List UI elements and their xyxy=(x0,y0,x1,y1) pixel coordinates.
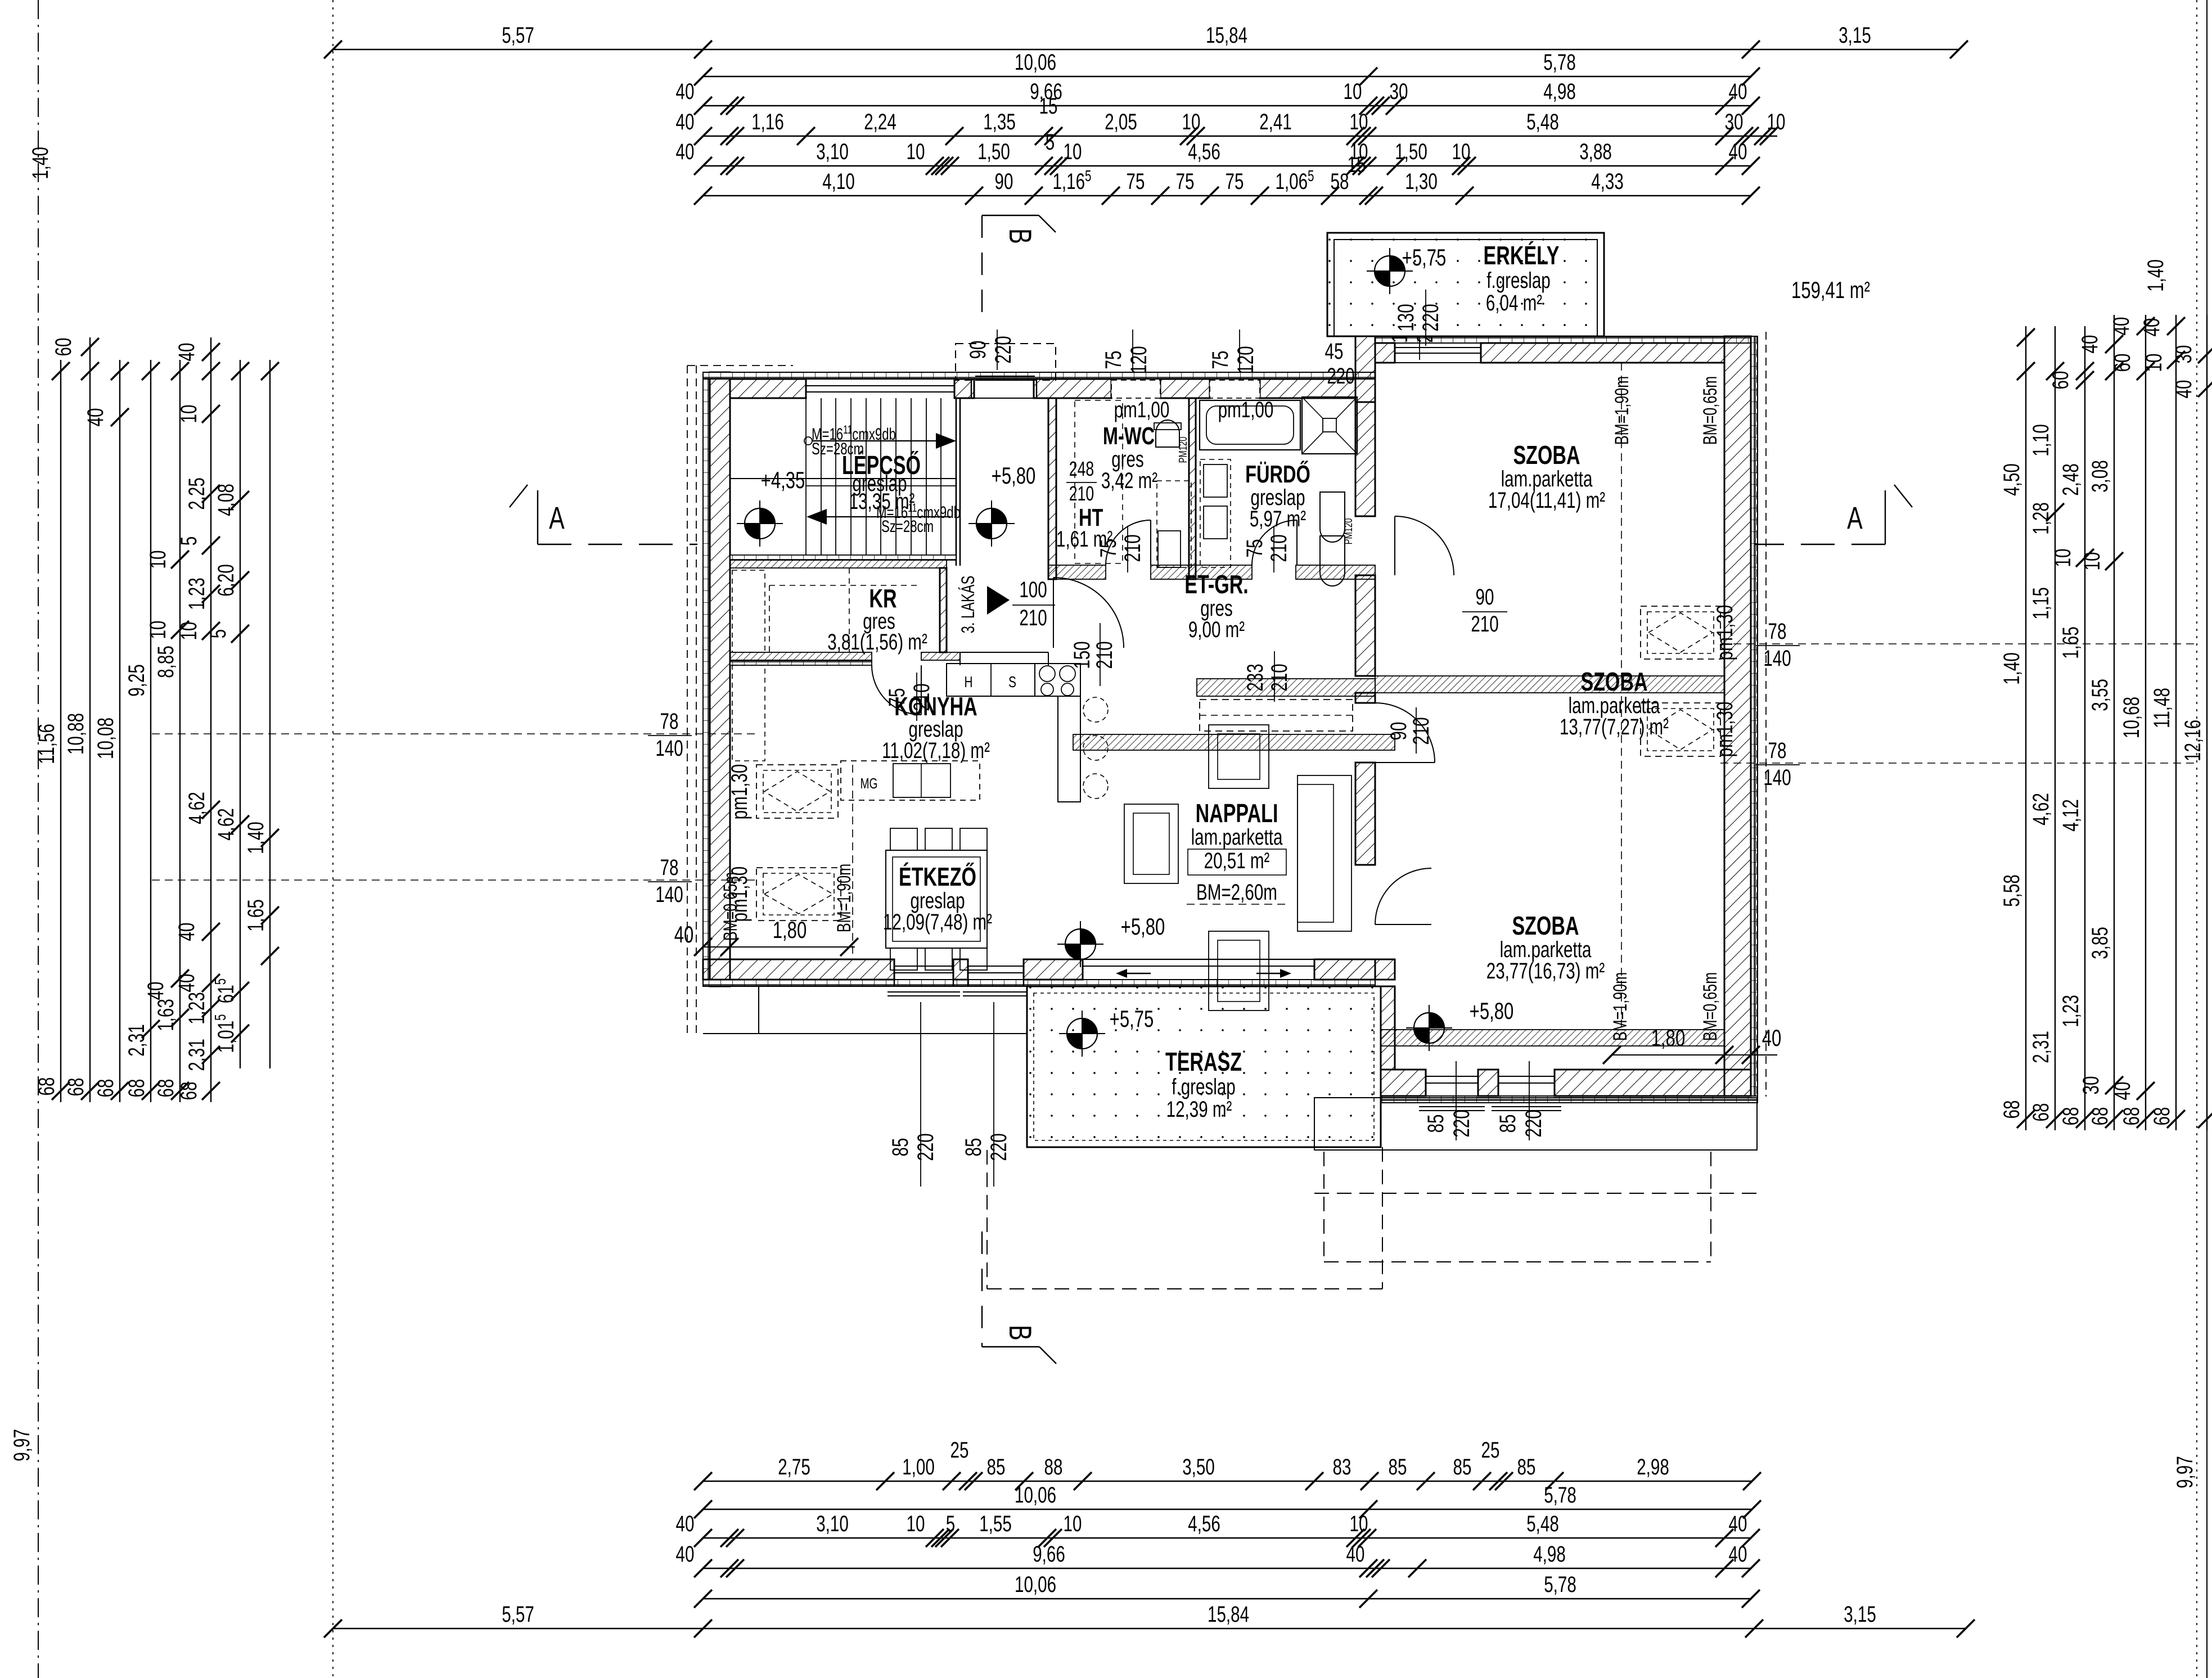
svg-text:1,28: 1,28 xyxy=(2029,502,2053,535)
svg-text:85: 85 xyxy=(961,1138,986,1157)
eaves outline left xyxy=(687,366,688,1035)
dimension chain bottom row 4 xyxy=(676,1542,1760,1577)
svg-text:1,40: 1,40 xyxy=(244,822,268,854)
left dimension column 1 xyxy=(34,360,70,1102)
outer wall bottom (left block) xyxy=(703,980,1375,986)
svg-text:40: 40 xyxy=(676,110,695,134)
svg-text:220: 220 xyxy=(1418,304,1443,331)
svg-text:MG: MG xyxy=(861,775,878,792)
dimension chain bottom row 6 xyxy=(324,1602,1975,1638)
svg-text:10,08: 10,08 xyxy=(93,718,118,759)
svg-text:9,25: 9,25 xyxy=(124,664,149,697)
svg-text:1,35: 1,35 xyxy=(983,110,1016,134)
svg-text:1,30: 1,30 xyxy=(1405,169,1438,194)
svg-text:1,50: 1,50 xyxy=(1395,139,1427,164)
svg-text:3,08: 3,08 xyxy=(2088,460,2112,493)
svg-text:25: 25 xyxy=(950,1438,969,1463)
svg-text:2,05: 2,05 xyxy=(1105,110,1137,134)
svg-text:10: 10 xyxy=(2051,549,2075,567)
svg-text:ÉTKEZŐ: ÉTKEZŐ xyxy=(899,862,976,891)
svg-text:85: 85 xyxy=(888,1138,913,1157)
sliding door arrows xyxy=(1119,973,1151,974)
right dimension column 3 xyxy=(2048,326,2094,1130)
svg-text:75: 75 xyxy=(1226,169,1244,194)
svg-text:68: 68 xyxy=(1999,1100,2024,1119)
balcony ERKELY xyxy=(1327,233,1604,336)
svg-text:Sz=28cm: Sz=28cm xyxy=(881,517,934,536)
svg-text:ERKÉLY: ERKÉLY xyxy=(1484,241,1560,270)
svg-text:3,42 m²: 3,42 m² xyxy=(1101,468,1158,493)
svg-text:68: 68 xyxy=(2088,1107,2112,1126)
right dimension column 7 xyxy=(2172,315,2212,1130)
svg-text:11,56: 11,56 xyxy=(34,724,59,764)
svg-text:+5,80: +5,80 xyxy=(1470,998,1514,1024)
svg-text:68: 68 xyxy=(2029,1103,2053,1122)
svg-text:5: 5 xyxy=(1046,130,1055,155)
dimension chain top row detail 2 xyxy=(676,130,1760,175)
svg-text:1,10: 1,10 xyxy=(2029,424,2053,457)
svg-text:68: 68 xyxy=(2058,1107,2083,1126)
svg-text:10: 10 xyxy=(907,1512,925,1536)
svg-text:B: B xyxy=(1002,228,1038,244)
svg-text:BM=0,65m: BM=0,65m xyxy=(1700,972,1721,1041)
svg-text:40: 40 xyxy=(676,1512,695,1536)
svg-text:83: 83 xyxy=(1333,1455,1351,1479)
svg-text:10: 10 xyxy=(907,139,925,164)
svg-text:68: 68 xyxy=(64,1078,88,1097)
svg-text:2,98: 2,98 xyxy=(1637,1455,1669,1479)
svg-text:SZOBA: SZOBA xyxy=(1512,911,1579,940)
svg-text:4,56: 4,56 xyxy=(1188,1512,1220,1536)
svg-text:10: 10 xyxy=(1064,1512,1082,1536)
svg-text:40: 40 xyxy=(1346,1542,1365,1567)
svg-text:3. LAKÁS: 3. LAKÁS xyxy=(958,576,978,634)
svg-text:2,31: 2,31 xyxy=(2029,1031,2053,1063)
svg-text:10: 10 xyxy=(146,621,170,639)
svg-text:+4,35: +4,35 xyxy=(761,467,805,493)
svg-text:210: 210 xyxy=(1069,482,1094,505)
svg-text:PM120: PM120 xyxy=(1342,518,1355,544)
svg-text:1,50: 1,50 xyxy=(977,139,1010,164)
svg-text:3,10: 3,10 xyxy=(816,139,849,164)
roof window pm1,30 left no.2 xyxy=(756,868,841,921)
svg-text:3,88: 3,88 xyxy=(1579,139,1612,164)
svg-text:1,15: 1,15 xyxy=(2029,587,2053,620)
svg-text:68: 68 xyxy=(124,1079,149,1098)
svg-text:10: 10 xyxy=(1452,139,1471,164)
wall closet top xyxy=(1197,679,1375,696)
svg-text:40: 40 xyxy=(1729,79,1747,104)
svg-text:4,50: 4,50 xyxy=(1999,463,2024,496)
svg-text:23,77(16,73) m²: 23,77(16,73) m² xyxy=(1486,959,1605,984)
left dimension column 3 xyxy=(83,360,129,1102)
eaves below left block xyxy=(758,986,759,1034)
section mark B top xyxy=(982,215,1039,216)
svg-text:40: 40 xyxy=(1729,1512,1747,1536)
outer wall bottom (right block) xyxy=(1375,1096,1758,1103)
svg-text:ET-GR.: ET-GR. xyxy=(1184,570,1248,599)
dimension chain bottom row 2 xyxy=(694,1483,1761,1518)
svg-text:30: 30 xyxy=(1725,110,1744,134)
svg-text:4,56: 4,56 xyxy=(1188,139,1220,164)
svg-text:4,98: 4,98 xyxy=(1543,79,1576,104)
terrace sliding door opening 350/220 xyxy=(1083,959,1314,960)
svg-text:pm1,00: pm1,00 xyxy=(1114,398,1170,422)
svg-text:5: 5 xyxy=(206,629,231,638)
svg-text:25: 25 xyxy=(1481,1438,1500,1463)
dim 1,80/40 left bottom xyxy=(703,946,855,948)
svg-text:8,85: 8,85 xyxy=(154,646,178,678)
svg-text:15: 15 xyxy=(1348,152,1366,177)
svg-text:210: 210 xyxy=(1471,612,1498,637)
room ETKEZO table xyxy=(886,850,987,948)
left dimension column 4 xyxy=(124,360,160,1102)
svg-text:159,41 m²: 159,41 m² xyxy=(1791,277,1870,303)
svg-text:85: 85 xyxy=(1517,1455,1536,1479)
svg-text:40: 40 xyxy=(174,974,199,993)
svg-text:40: 40 xyxy=(2110,1082,2135,1100)
window 85/220 no.1 bottom wall xyxy=(894,959,895,986)
section mark A right xyxy=(1885,490,1886,544)
kitchen counters xyxy=(947,664,1080,696)
step wall connecting blocks xyxy=(1355,336,1375,402)
right dimension column 4 xyxy=(2078,315,2123,1130)
svg-text:TERASZ: TERASZ xyxy=(1165,1047,1242,1076)
grid line 5,57 xyxy=(332,0,334,1678)
section mark A left xyxy=(537,490,538,544)
dimension chain top row detail 1 xyxy=(676,94,1786,145)
svg-text:210: 210 xyxy=(1019,606,1047,630)
svg-text:1,00: 1,00 xyxy=(902,1455,935,1479)
wall szoba1 bottom xyxy=(1375,676,1724,693)
svg-text:5,78: 5,78 xyxy=(1544,1483,1576,1508)
svg-text:2,41: 2,41 xyxy=(1259,110,1292,134)
svg-text:A: A xyxy=(549,500,565,536)
svg-text:3,50: 3,50 xyxy=(1182,1455,1215,1479)
svg-text:15,84: 15,84 xyxy=(1208,1602,1249,1627)
svg-text:40: 40 xyxy=(143,982,168,1000)
svg-text:11,48: 11,48 xyxy=(2150,688,2174,728)
svg-text:+5,75: +5,75 xyxy=(1110,1005,1154,1032)
svg-text:90: 90 xyxy=(995,169,1013,194)
svg-text:85: 85 xyxy=(1423,1115,1448,1133)
svg-text:4,08: 4,08 xyxy=(214,484,238,516)
right dimension column 6 xyxy=(2139,315,2185,1130)
svg-text:10,06: 10,06 xyxy=(1015,1483,1056,1508)
svg-text:210: 210 xyxy=(1267,534,1291,562)
svg-text:BM=1,90m: BM=1,90m xyxy=(834,864,855,932)
svg-text:6,20: 6,20 xyxy=(214,564,238,597)
level marker +4,35 xyxy=(745,508,775,539)
door opening szoba bottom xyxy=(1375,868,1431,924)
porch dashed outline at entrance xyxy=(956,344,1056,380)
svg-text:220: 220 xyxy=(1521,1109,1546,1137)
svg-text:11,02(7,18) m²: 11,02(7,18) m² xyxy=(882,738,990,763)
svg-text:5: 5 xyxy=(177,536,201,545)
wall bath right / szoba left upper xyxy=(1355,402,1375,516)
svg-text:12,39 m²: 12,39 m² xyxy=(1166,1097,1232,1122)
svg-text:5,78: 5,78 xyxy=(1544,1572,1576,1597)
svg-text:4,62: 4,62 xyxy=(214,808,238,841)
svg-text:A: A xyxy=(1847,500,1863,536)
svg-text:85: 85 xyxy=(987,1455,1006,1479)
corner wall nappali bottom right xyxy=(1314,959,1375,980)
svg-text:40: 40 xyxy=(676,1542,695,1567)
svg-text:140: 140 xyxy=(655,882,683,907)
svg-text:4,12: 4,12 xyxy=(2058,799,2083,832)
svg-text:58: 58 xyxy=(1331,169,1349,194)
svg-text:BM=1,90m: BM=1,90m xyxy=(1611,376,1633,445)
site boundary line left xyxy=(38,0,39,1678)
nappali armchair 1 xyxy=(1209,725,1269,788)
wall szoba middle bottom xyxy=(1375,1030,1724,1046)
svg-text:10: 10 xyxy=(1344,79,1362,104)
wall KR bottom with door 75/210 xyxy=(730,652,872,660)
eaves right block xyxy=(1756,336,1758,1097)
svg-text:lam.parketta: lam.parketta xyxy=(1191,825,1283,850)
svg-text:10: 10 xyxy=(1767,110,1786,134)
svg-text:5,57: 5,57 xyxy=(502,1602,534,1627)
svg-text:10: 10 xyxy=(177,622,201,640)
roof window pm1,30 right no.2 xyxy=(1641,703,1720,756)
window 85/220 no.3 bottom right xyxy=(1425,1070,1426,1096)
svg-text:1,40: 1,40 xyxy=(1999,652,2024,685)
svg-text:4,62: 4,62 xyxy=(2029,793,2053,826)
svg-text:1,23: 1,23 xyxy=(2058,995,2083,1027)
svg-text:100: 100 xyxy=(1019,578,1047,602)
entrance door opening B in top wall xyxy=(974,398,1034,399)
svg-text:5,48: 5,48 xyxy=(1526,1512,1559,1536)
site boundary line right dashed xyxy=(2196,0,2197,1678)
svg-text:1,40: 1,40 xyxy=(28,147,53,179)
svg-text:85: 85 xyxy=(1389,1455,1407,1479)
svg-text:1,16: 1,16 xyxy=(751,110,784,134)
svg-text:30: 30 xyxy=(2172,345,2196,364)
page edge line right xyxy=(2206,0,2208,1678)
svg-text:90: 90 xyxy=(966,341,990,359)
svg-text:5,97 m²: 5,97 m² xyxy=(1250,507,1307,531)
svg-text:f.greslap: f.greslap xyxy=(1172,1075,1235,1099)
svg-text:10,88: 10,88 xyxy=(64,713,88,755)
left dimension column 6 xyxy=(174,337,220,1102)
svg-text:1,65: 1,65 xyxy=(2058,626,2083,659)
svg-text:88: 88 xyxy=(1044,1455,1063,1479)
shower xyxy=(1302,397,1357,454)
svg-text:68: 68 xyxy=(93,1079,118,1098)
svg-text:140: 140 xyxy=(655,736,683,761)
dimension chain bottom row 5 xyxy=(694,1572,1760,1608)
svg-text:6,04 m²: 6,04 m² xyxy=(1486,291,1543,315)
svg-text:233: 233 xyxy=(1243,664,1268,691)
svg-text:90: 90 xyxy=(1476,585,1494,610)
left dimension column 5 xyxy=(143,360,189,1102)
svg-text:pm1,30: pm1,30 xyxy=(1713,605,1737,661)
svg-text:210: 210 xyxy=(1409,717,1434,745)
svg-text:2,24: 2,24 xyxy=(864,110,896,134)
svg-text:75: 75 xyxy=(1208,351,1233,369)
svg-text:78: 78 xyxy=(660,709,679,734)
svg-text:5,48: 5,48 xyxy=(1526,110,1559,134)
wall bath bottom row segments xyxy=(1048,565,1106,579)
right dimension column 5 xyxy=(2109,315,2155,1130)
svg-text:10: 10 xyxy=(1064,139,1082,164)
level marker +5,75 balcony xyxy=(1375,256,1405,286)
svg-text:2,25: 2,25 xyxy=(184,477,209,510)
svg-text:10,68: 10,68 xyxy=(2119,697,2144,738)
stair direction arrow up xyxy=(804,437,812,445)
M-WC basin xyxy=(1157,481,1191,567)
door arc szoba top-right 90/210 xyxy=(1395,516,1454,575)
svg-text:10: 10 xyxy=(1182,110,1201,134)
svg-text:10: 10 xyxy=(2080,552,2105,571)
svg-text:120: 120 xyxy=(1233,346,1258,373)
svg-text:15,84: 15,84 xyxy=(1206,23,1247,48)
dimension chain bottom row 1 xyxy=(694,1438,1761,1490)
svg-text:130: 130 xyxy=(1394,304,1418,331)
svg-text:210: 210 xyxy=(1267,664,1292,691)
svg-text:1,61 m²: 1,61 m² xyxy=(1056,527,1113,552)
left dimension column 8 xyxy=(244,360,279,1068)
stair direction arrow down xyxy=(822,516,950,517)
svg-text:9,00 m²: 9,00 m² xyxy=(1188,617,1245,642)
svg-text:PM120: PM120 xyxy=(1177,436,1190,463)
svg-text:68: 68 xyxy=(177,1082,201,1100)
svg-text:220: 220 xyxy=(991,336,1016,363)
svg-text:f.greslap: f.greslap xyxy=(1486,268,1550,293)
svg-text:40: 40 xyxy=(674,921,694,948)
room HT xyxy=(1075,400,1123,563)
svg-text:68: 68 xyxy=(34,1077,59,1096)
svg-text:3,15: 3,15 xyxy=(1839,23,1871,48)
svg-text:150: 150 xyxy=(1070,641,1094,669)
svg-text:10: 10 xyxy=(1350,1512,1368,1536)
svg-text:40: 40 xyxy=(174,343,199,362)
svg-text:12,09(7,48) m²: 12,09(7,48) m² xyxy=(883,910,992,935)
svg-text:pm1,00: pm1,00 xyxy=(1218,398,1274,422)
svg-text:40: 40 xyxy=(1729,1542,1747,1567)
svg-text:75: 75 xyxy=(1176,169,1195,194)
nappali sofa xyxy=(1298,775,1351,931)
svg-text:60: 60 xyxy=(2110,354,2135,372)
svg-text:68: 68 xyxy=(2119,1107,2144,1126)
dashed line below right block xyxy=(1314,1193,1757,1194)
eave slab below right block xyxy=(1314,1098,1757,1150)
svg-text:40: 40 xyxy=(174,923,199,941)
outer wall left xyxy=(703,372,710,986)
svg-text:40: 40 xyxy=(1762,1025,1782,1051)
kitchen counter right xyxy=(1058,696,1080,802)
wall KR right xyxy=(940,568,947,652)
dashed outline below terrace xyxy=(986,1150,988,1289)
svg-text:5,58: 5,58 xyxy=(1999,874,2024,907)
closet dashed xyxy=(1200,700,1353,731)
svg-text:5,57: 5,57 xyxy=(502,23,534,48)
svg-text:30: 30 xyxy=(2079,1076,2103,1095)
svg-text:B: B xyxy=(1002,1325,1038,1341)
svg-text:10: 10 xyxy=(146,551,170,569)
wall below stair xyxy=(730,555,956,560)
dimension chain bottom row 3 xyxy=(676,1512,1760,1547)
door arc bath 75/210 xyxy=(1252,520,1297,565)
stove xyxy=(1035,664,1080,696)
svg-text:60: 60 xyxy=(2048,371,2073,390)
outer wall right xyxy=(1751,336,1758,1096)
svg-text:10,06: 10,06 xyxy=(1015,1572,1056,1597)
svg-text:40: 40 xyxy=(2078,335,2102,354)
svg-text:1,80: 1,80 xyxy=(1651,1025,1685,1051)
section mark B bottom xyxy=(982,1346,1039,1347)
dim 1,80/40 szoba bottom xyxy=(1612,1054,1777,1055)
svg-text:78: 78 xyxy=(1768,738,1787,763)
svg-text:220: 220 xyxy=(1327,364,1354,389)
svg-text:78: 78 xyxy=(1768,619,1787,644)
svg-text:60: 60 xyxy=(51,338,76,357)
svg-text:3,81(1,56) m²: 3,81(1,56) m² xyxy=(827,630,927,655)
svg-text:40: 40 xyxy=(1729,139,1747,164)
svg-text:SZOBA: SZOBA xyxy=(1580,667,1647,696)
svg-text:M-WC: M-WC xyxy=(1103,422,1155,450)
svg-text:H: H xyxy=(965,674,973,691)
svg-text:17,04(11,41) m²: 17,04(11,41) m² xyxy=(1488,488,1606,513)
wall stair/corridor edge xyxy=(956,398,957,566)
roof window pm1,30 left no.1 xyxy=(756,765,838,818)
svg-text:248: 248 xyxy=(1069,457,1094,480)
svg-text:2,48: 2,48 xyxy=(2058,463,2083,496)
level marker +5,80 nappali xyxy=(1065,929,1096,959)
svg-text:10: 10 xyxy=(177,405,201,423)
svg-text:45: 45 xyxy=(1325,339,1344,364)
svg-text:+5,75: +5,75 xyxy=(1402,244,1447,270)
svg-text:1,65: 1,65 xyxy=(244,899,268,932)
svg-text:BM=0,65m: BM=0,65m xyxy=(1700,376,1721,445)
svg-text:4,10: 4,10 xyxy=(822,169,855,194)
stair LEPCSO treads xyxy=(730,398,956,555)
nappali armchair 2 xyxy=(1124,804,1178,883)
svg-text:68: 68 xyxy=(2150,1107,2174,1126)
svg-text:40: 40 xyxy=(676,79,695,104)
svg-text:5,78: 5,78 xyxy=(1543,50,1576,75)
svg-text:2,31: 2,31 xyxy=(124,1024,149,1057)
door arc M-WC 75/210 xyxy=(1106,520,1151,565)
window 85/220 no.2 bottom wall xyxy=(967,959,968,986)
svg-text:40: 40 xyxy=(676,139,695,164)
bath basins xyxy=(1200,459,1231,567)
svg-text:5: 5 xyxy=(946,1512,955,1536)
dimension chain top row detail 3 xyxy=(694,152,1760,205)
svg-text:140: 140 xyxy=(1763,765,1791,790)
svg-text:3,55: 3,55 xyxy=(2088,679,2112,711)
svg-text:40: 40 xyxy=(2139,318,2164,337)
svg-text:3,85: 3,85 xyxy=(2088,927,2112,959)
kitchen left counters dashed xyxy=(732,570,765,652)
left dimension column 2 xyxy=(51,337,99,1102)
svg-text:75: 75 xyxy=(1242,539,1267,558)
svg-text:+5,80: +5,80 xyxy=(992,462,1036,489)
right dimension column 1 xyxy=(1999,326,2035,1130)
roof window pm1,30 right no.1 xyxy=(1641,606,1720,659)
svg-text:9,97: 9,97 xyxy=(10,1429,34,1462)
nappali coffee table xyxy=(1209,931,1269,1011)
level marker +5,80 szoba bottom xyxy=(1414,1013,1444,1043)
M-WC toilet xyxy=(1156,420,1179,447)
roof window 75/120 no.1 in top wall xyxy=(1111,380,1160,398)
svg-text:S: S xyxy=(1008,674,1016,691)
svg-text:68: 68 xyxy=(154,1079,178,1098)
svg-text:210: 210 xyxy=(1092,641,1117,669)
svg-text:2,75: 2,75 xyxy=(778,1455,810,1479)
svg-text:pm1,30: pm1,30 xyxy=(727,764,752,820)
entry door 100/210 arc xyxy=(959,652,961,665)
